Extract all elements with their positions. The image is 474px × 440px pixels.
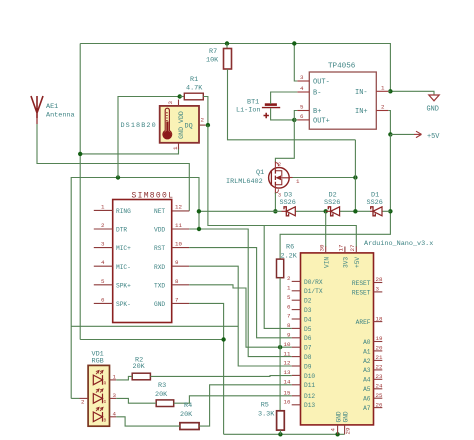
svg-text:17: 17 bbox=[338, 244, 345, 251]
svg-text:SS26: SS26 bbox=[367, 199, 383, 207]
DS18B20 U$1 bbox=[121, 100, 206, 151]
pin 3 top bbox=[178, 100, 180, 106]
svg-text:A4: A4 bbox=[363, 377, 371, 384]
node GND-junction bbox=[388, 89, 392, 93]
wire bbox=[390, 91, 434, 94]
svg-text:Li-Ion: Li-Ion bbox=[236, 107, 260, 115]
pin 4 MIC- bbox=[94, 265, 113, 267]
svg-text:A1: A1 bbox=[363, 348, 371, 355]
pin 2 DTR bbox=[94, 228, 113, 230]
svg-text:DQ: DQ bbox=[185, 123, 193, 131]
wire RXD-to-D9 bbox=[189, 266, 292, 366]
svg-text:TP4056: TP4056 bbox=[328, 63, 356, 71]
ground bbox=[427, 95, 440, 114]
svg-text:3.3K: 3.3K bbox=[258, 410, 275, 418]
svg-text:2: 2 bbox=[101, 222, 105, 229]
node R7-top bbox=[225, 41, 229, 45]
svg-text:19: 19 bbox=[376, 335, 383, 342]
wire bbox=[80, 44, 390, 92]
svg-text:+5V: +5V bbox=[427, 133, 440, 141]
thermometer icon bbox=[163, 108, 172, 139]
node left-rail-junction bbox=[78, 152, 82, 156]
node GND-rail bbox=[221, 337, 225, 341]
wire Bplus-down-to-Q1 bbox=[275, 120, 294, 163]
left pins D0-D13 bbox=[292, 281, 301, 404]
wire VD1pin1-to-R2 bbox=[116, 376, 132, 380]
svg-text:A0: A0 bbox=[363, 339, 371, 346]
svg-text:DS18B20: DS18B20 bbox=[121, 122, 157, 130]
node gate-row bbox=[353, 209, 357, 213]
svg-text:MIC+: MIC+ bbox=[116, 245, 131, 252]
svg-text:20: 20 bbox=[376, 345, 383, 352]
svg-text:SPK-: SPK- bbox=[116, 301, 131, 308]
wire diode-row-4 bbox=[382, 210, 390, 212]
svg-text:1: 1 bbox=[296, 178, 300, 185]
svg-text:D10: D10 bbox=[304, 373, 315, 380]
node VDDrail-x118 bbox=[116, 175, 120, 179]
svg-text:A2: A2 bbox=[363, 358, 371, 365]
node ArduinoGND4 bbox=[335, 432, 339, 436]
svg-text:2: 2 bbox=[278, 162, 281, 168]
wire VD1pin4-to-R4 bbox=[116, 417, 180, 426]
svg-text:IRLML6402: IRLML6402 bbox=[226, 178, 263, 186]
pin 3 MIC+ bbox=[94, 247, 113, 249]
IC TP4056 U2 bbox=[297, 63, 388, 130]
svg-text:MIC-: MIC- bbox=[116, 264, 131, 271]
svg-text:D12: D12 bbox=[304, 393, 315, 400]
svg-text:5: 5 bbox=[287, 294, 291, 301]
wire GND-rail-bottom bbox=[80, 339, 223, 341]
svg-text:RESET: RESET bbox=[352, 289, 371, 296]
pin 17 3V3 bbox=[344, 247, 346, 253]
svg-text:20K: 20K bbox=[155, 391, 168, 399]
svg-text:BT1: BT1 bbox=[247, 99, 259, 107]
node OUT--top bbox=[292, 41, 296, 45]
svg-text:28: 28 bbox=[376, 276, 383, 283]
wire VDD-rail bbox=[71, 178, 199, 399]
svg-text:SIM800L: SIM800L bbox=[132, 192, 175, 201]
wire bbox=[79, 44, 81, 340]
svg-text:RESET: RESET bbox=[352, 280, 371, 287]
svg-text:OUT+: OUT+ bbox=[313, 118, 330, 126]
svg-text:10: 10 bbox=[284, 341, 291, 348]
wire R4-to-D11 bbox=[199, 385, 292, 426]
wire antenna-to-NET bbox=[37, 124, 189, 211]
resistor R1 bbox=[180, 76, 204, 100]
svg-text:30: 30 bbox=[319, 244, 326, 251]
svg-text:R6: R6 bbox=[286, 244, 294, 252]
wire SIMGND-to-D9 bbox=[189, 303, 223, 434]
svg-text:2: 2 bbox=[287, 275, 291, 282]
svg-text:1: 1 bbox=[381, 84, 385, 91]
node plus5V bbox=[388, 132, 392, 136]
svg-text:29: 29 bbox=[344, 427, 351, 434]
svg-text:R3: R3 bbox=[158, 382, 166, 390]
node R5-bottom bbox=[278, 432, 282, 436]
LED array VD1 RGB bbox=[71, 351, 116, 427]
pin 5 B+ bbox=[297, 110, 309, 112]
wire GND-drop bbox=[224, 433, 345, 435]
svg-text:8: 8 bbox=[287, 322, 291, 329]
supply +5V bbox=[390, 131, 440, 141]
svg-text:5: 5 bbox=[101, 278, 105, 285]
antenna AE1 bbox=[31, 96, 75, 124]
svg-text:21: 21 bbox=[376, 354, 383, 361]
right pins bbox=[374, 283, 383, 408]
wire Bplus-up-to-B+ bbox=[294, 111, 297, 120]
svg-text:R5: R5 bbox=[261, 401, 269, 409]
resistor R2 bbox=[132, 356, 150, 379]
svg-text:3: 3 bbox=[113, 392, 117, 399]
svg-text:11: 11 bbox=[284, 350, 291, 357]
wire battery-plus bbox=[271, 108, 295, 120]
svg-text:A6: A6 bbox=[363, 396, 371, 403]
svg-text:1: 1 bbox=[101, 203, 105, 210]
svg-text:R: R bbox=[104, 380, 107, 386]
wire x118-riser bbox=[118, 97, 180, 178]
svg-text:3: 3 bbox=[278, 193, 281, 199]
svg-text:9: 9 bbox=[287, 332, 291, 339]
node diode-row-right bbox=[388, 209, 392, 213]
svg-text:GND: GND bbox=[154, 301, 165, 308]
resistor R7 bbox=[206, 44, 232, 70]
svg-text:DTR: DTR bbox=[116, 227, 127, 234]
svg-text:D4: D4 bbox=[304, 316, 312, 323]
resistor R3 bbox=[155, 382, 174, 407]
wire TXD-to-D1 bbox=[189, 285, 292, 347]
svg-text:VIN: VIN bbox=[324, 257, 331, 268]
pin 1 IN- bbox=[376, 90, 388, 92]
transistor Q1 IRLML6402 bbox=[226, 162, 300, 199]
svg-text:3V3: 3V3 bbox=[343, 257, 350, 268]
svg-text:4: 4 bbox=[330, 428, 337, 432]
wire VIN-drop bbox=[325, 211, 327, 247]
svg-text:6: 6 bbox=[287, 303, 291, 310]
diode D2 SS26 bbox=[324, 192, 340, 216]
svg-text:A7: A7 bbox=[363, 405, 371, 412]
IC SIM800L U3 bbox=[94, 192, 189, 323]
battery BT1 bbox=[236, 99, 280, 119]
svg-text:R7: R7 bbox=[209, 48, 217, 56]
svg-text:G: G bbox=[104, 399, 107, 405]
svg-text:IN-: IN- bbox=[355, 89, 368, 97]
svg-text:RST: RST bbox=[154, 245, 165, 252]
wire diode-row bbox=[199, 210, 282, 212]
svg-text:D3: D3 bbox=[304, 307, 312, 314]
wire gate-vertical bbox=[354, 140, 356, 212]
svg-text:1: 1 bbox=[172, 146, 179, 150]
pin 9 RXD bbox=[172, 265, 190, 267]
svg-text:8: 8 bbox=[175, 278, 179, 285]
wire IN+-down bbox=[388, 111, 390, 135]
pin 7 GND bbox=[172, 302, 190, 304]
svg-text:4.7K: 4.7K bbox=[186, 85, 203, 93]
pin 8 TXD bbox=[172, 284, 190, 286]
svg-text:D9: D9 bbox=[304, 363, 312, 370]
wire 5V-down-to-R6 bbox=[280, 134, 390, 259]
node R1-left bbox=[178, 94, 182, 98]
svg-text:D13: D13 bbox=[304, 402, 315, 409]
wire R5-bottom bbox=[279, 430, 281, 434]
svg-text:3: 3 bbox=[167, 101, 174, 105]
svg-text:9: 9 bbox=[175, 259, 179, 266]
wire R6-down bbox=[279, 278, 281, 411]
svg-text:RING: RING bbox=[116, 208, 131, 215]
svg-text:VDD: VDD bbox=[154, 227, 165, 234]
wire VDD-to-D8 bbox=[199, 229, 292, 357]
node Q1-drain-row bbox=[273, 209, 277, 213]
svg-text:23: 23 bbox=[376, 373, 383, 380]
wire OUT--drop bbox=[294, 44, 297, 82]
svg-text:4: 4 bbox=[300, 85, 304, 92]
svg-text:A3: A3 bbox=[363, 367, 371, 374]
svg-text:27: 27 bbox=[349, 244, 356, 251]
svg-text:IN+: IN+ bbox=[355, 108, 368, 116]
svg-text:6: 6 bbox=[300, 113, 304, 120]
svg-text:D1/TX: D1/TX bbox=[304, 288, 323, 295]
svg-text:A5: A5 bbox=[363, 386, 371, 393]
svg-text:24: 24 bbox=[376, 382, 383, 389]
svg-text:D0/RX: D0/RX bbox=[304, 279, 323, 286]
svg-text:B+: B+ bbox=[313, 108, 321, 116]
svg-text:Antenna: Antenna bbox=[46, 112, 75, 120]
node DQ bbox=[206, 123, 210, 127]
pin 4 B- bbox=[297, 91, 309, 93]
pin 2 IN+ bbox=[376, 110, 388, 112]
wire R3-to-D13 bbox=[174, 396, 292, 403]
svg-text:10K: 10K bbox=[206, 57, 219, 65]
svg-text:22: 22 bbox=[376, 364, 383, 371]
svg-text:1: 1 bbox=[113, 373, 117, 380]
svg-text:4: 4 bbox=[101, 259, 105, 266]
resistor R6 bbox=[277, 244, 298, 278]
LED B bbox=[93, 412, 102, 422]
IC Arduino_Nano_v3.x U4 bbox=[284, 240, 434, 435]
svg-text:7: 7 bbox=[287, 313, 291, 320]
pin 6 SPK- bbox=[94, 302, 113, 304]
svg-text:AREF: AREF bbox=[356, 319, 371, 326]
svg-text:TXD: TXD bbox=[154, 282, 165, 289]
wire Q1-gate bbox=[293, 177, 356, 179]
svg-text:16: 16 bbox=[284, 399, 291, 406]
svg-text:4: 4 bbox=[113, 410, 117, 417]
node VDD-drop bbox=[197, 209, 201, 213]
svg-text:5: 5 bbox=[300, 104, 304, 111]
wire Bplus-to-OUT+ bbox=[294, 119, 297, 121]
svg-text:B: B bbox=[104, 417, 107, 423]
pin 2 DQ bbox=[199, 124, 206, 126]
wire 5V-pin-drop bbox=[264, 226, 356, 248]
svg-text:R4: R4 bbox=[184, 402, 192, 410]
wire DQ-down-to-5V bbox=[208, 125, 292, 328]
svg-text:AE1: AE1 bbox=[46, 103, 58, 111]
wire R7-to-gate bbox=[228, 69, 356, 140]
svg-text:NET: NET bbox=[154, 208, 165, 215]
wire Q1-drain-down bbox=[274, 193, 276, 212]
svg-text:2: 2 bbox=[81, 398, 85, 405]
svg-text:D2: D2 bbox=[304, 298, 312, 305]
pin 6 OUT+ bbox=[297, 119, 309, 121]
svg-text:2: 2 bbox=[201, 117, 205, 124]
svg-text:D7: D7 bbox=[304, 345, 312, 352]
svg-text:RXD: RXD bbox=[154, 264, 165, 271]
svg-text:D5: D5 bbox=[304, 326, 312, 333]
svg-text:2.2K: 2.2K bbox=[281, 253, 298, 261]
svg-text:7: 7 bbox=[175, 296, 179, 303]
svg-text:D11: D11 bbox=[304, 382, 315, 389]
node VIN-row bbox=[324, 209, 328, 213]
svg-text:26: 26 bbox=[376, 401, 383, 408]
svg-text:12: 12 bbox=[284, 360, 291, 367]
svg-text:D8: D8 bbox=[304, 354, 312, 361]
wire R1-to-DQ bbox=[203, 97, 208, 126]
wire diode-row-2 bbox=[295, 210, 326, 212]
svg-text:20K: 20K bbox=[133, 363, 146, 371]
wire VD1rail-to-RXD bbox=[71, 325, 238, 327]
svg-text:GND: GND bbox=[335, 411, 342, 422]
svg-text:SS26: SS26 bbox=[280, 199, 296, 207]
svg-text:B-: B- bbox=[313, 90, 321, 98]
node VDD-branch bbox=[197, 227, 201, 231]
svg-text:1: 1 bbox=[287, 285, 291, 292]
node Bplus bbox=[292, 118, 296, 122]
pin 10 RST bbox=[172, 247, 190, 249]
node RST-R6-R5 bbox=[278, 345, 282, 349]
pin 11 VDD bbox=[172, 228, 190, 230]
pin 2 left bbox=[80, 397, 89, 399]
wire RST-to-D7 bbox=[189, 248, 292, 338]
svg-text:RGB: RGB bbox=[92, 358, 104, 366]
svg-text:18: 18 bbox=[376, 315, 383, 322]
svg-text:SS26: SS26 bbox=[324, 199, 340, 207]
pin 1 RING bbox=[94, 209, 113, 211]
svg-text:R1: R1 bbox=[190, 76, 198, 84]
svg-text:GND: GND bbox=[342, 411, 349, 422]
pin 1 bottom bbox=[178, 143, 180, 149]
node gate-junction bbox=[353, 175, 357, 179]
diode D1 SS26 bbox=[367, 192, 383, 216]
svg-text:10: 10 bbox=[175, 241, 182, 248]
svg-text:2: 2 bbox=[381, 104, 385, 111]
pin 29 GND bottom bbox=[344, 425, 346, 434]
svg-text:GND: GND bbox=[427, 106, 439, 114]
pin 30 VIN bbox=[325, 247, 327, 253]
svg-text:3: 3 bbox=[101, 241, 105, 248]
svg-text:20K: 20K bbox=[180, 411, 193, 419]
resistor R4 bbox=[180, 402, 199, 430]
wire DS18B20-pin1-to-left-rail bbox=[80, 148, 178, 154]
svg-text:SPK+: SPK+ bbox=[116, 282, 131, 289]
wire diode-row-3 bbox=[340, 210, 370, 212]
svg-text:+5V: +5V bbox=[354, 257, 361, 268]
wire VD1pin3-to-R3 bbox=[116, 398, 156, 403]
svg-text:3: 3 bbox=[376, 286, 380, 293]
svg-text:3: 3 bbox=[300, 74, 304, 81]
wire IN--to-gnd bbox=[388, 90, 390, 92]
svg-text:12: 12 bbox=[175, 203, 182, 210]
svg-text:Arduino_Nano_v3.x: Arduino_Nano_v3.x bbox=[364, 240, 433, 248]
resistor R5 bbox=[258, 401, 284, 430]
svg-text:6: 6 bbox=[101, 296, 105, 303]
wire R2-to-D10 bbox=[150, 375, 291, 378]
svg-text:11: 11 bbox=[175, 222, 182, 229]
diode D3 SS26 bbox=[280, 192, 296, 216]
svg-text:D6: D6 bbox=[304, 335, 312, 342]
pin 27 +5V bbox=[355, 247, 357, 253]
pin 4 GND bottom bbox=[337, 425, 339, 434]
wire NET-antenna-stub bbox=[172, 210, 190, 212]
svg-text:Q1: Q1 bbox=[256, 169, 264, 177]
LED R bbox=[93, 375, 102, 385]
LED G bbox=[93, 394, 102, 404]
wire battery-minus bbox=[271, 92, 298, 104]
svg-text:25: 25 bbox=[376, 392, 383, 399]
pin 5 SPK+ bbox=[94, 284, 113, 286]
pin 3 OUT- bbox=[297, 80, 309, 82]
svg-text:OUT-: OUT- bbox=[313, 79, 330, 87]
